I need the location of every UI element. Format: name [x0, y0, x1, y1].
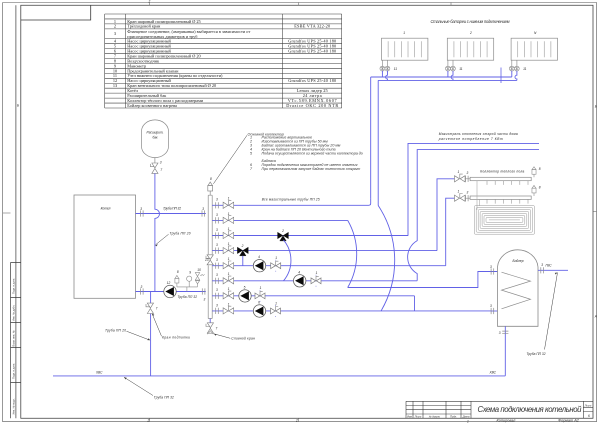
- branch 7 pipe: [212, 295, 414, 297]
- branch 5 flange: [216, 263, 219, 269]
- bypass valve 13 on manifold: [206, 255, 213, 265]
- svg-text:ГВС: ГВС: [546, 263, 553, 267]
- arc jump radiator return into boiler return line: [378, 206, 394, 312]
- branch 4 three-way valve 2: [237, 247, 248, 256]
- cold water supply line: [53, 375, 505, 377]
- floor heating coil loops: [474, 206, 534, 235]
- frame zone ticks bottom: [150, 418, 299, 422]
- radiator N valve pair 11: [509, 66, 519, 71]
- radiator 1 supply drop: [381, 71, 383, 77]
- svg-text:Подача осуществляется из верхн: Подача осуществляется из верхней части к…: [262, 151, 363, 155]
- branch 3 flange: [216, 232, 219, 238]
- svg-text:Б: Б: [17, 104, 19, 108]
- svg-text:Магистраль отопления старой ча: Магистраль отопления старой части дома: [439, 132, 518, 136]
- branch 3 three-way valve 2: [278, 232, 289, 241]
- svg-text:Бойлер косвенного нагрева: Бойлер косвенного нагрева: [127, 103, 177, 108]
- svg-text:1: 1: [228, 227, 230, 231]
- leader to tank pipe: [156, 234, 169, 245]
- leader from make-up valve: [152, 314, 162, 337]
- svg-text:Инв. № подл.: Инв. № подл.: [12, 398, 16, 414]
- boiler body: [74, 195, 136, 298]
- drop pipe from branch 4 three-way to branch 5: [242, 256, 244, 266]
- boiler feed line horizontal: [348, 272, 498, 288]
- svg-text:4: 4: [298, 270, 300, 274]
- svg-text:Стальные батареи с нижним подк: Стальные батареи с нижним подключением: [431, 19, 510, 24]
- radiator 1 body: [382, 38, 428, 60]
- radiator 2 valve pair 11: [445, 66, 455, 71]
- svg-text:5: 5: [244, 285, 246, 289]
- radiator 1 valve stems: [382, 60, 387, 66]
- radiator 2 valve stems: [448, 60, 453, 66]
- svg-text:Бойлер: Бойлер: [513, 259, 524, 263]
- svg-text:Труба ПП 20: Труба ПП 20: [170, 232, 191, 236]
- svg-text:3: 3: [467, 171, 469, 175]
- title block bottom labels: [407, 403, 592, 418]
- svg-text:2: 2: [148, 0, 151, 3]
- top-left stamp box: [21, 5, 91, 20]
- svg-text:Труба ПП 32: Труба ПП 32: [154, 395, 174, 399]
- svg-text:1: 1: [260, 286, 262, 290]
- svg-text:1: 1: [228, 287, 230, 291]
- svg-text:1: 1: [228, 242, 230, 246]
- branch 2 flange: [216, 217, 219, 223]
- valve after pump branch 7: [255, 290, 265, 302]
- leader to make-up pipe: [127, 331, 150, 340]
- svg-text:7: 7: [216, 326, 218, 330]
- svg-text:1: 1: [316, 271, 318, 275]
- svg-text:3: 3: [216, 288, 218, 292]
- left stamp column lines: [11, 5, 21, 418]
- svg-text:Копировал: Копировал: [497, 419, 517, 423]
- collector notes text block: [248, 132, 363, 171]
- svg-text:При первоначальном запуске бай: При первоначальном запуске байпас полнос…: [262, 167, 361, 171]
- svg-text:1: 1: [275, 301, 277, 305]
- svg-text:8: 8: [177, 270, 179, 274]
- svg-text:2: 2: [114, 24, 116, 29]
- boiler cold water stem: [504, 326, 506, 376]
- expansion tank stem: [154, 158, 156, 163]
- svg-text:3: 3: [140, 207, 142, 211]
- svg-text:Все магистральные трубы ПП 25: Все магистральные трубы ПП 25: [262, 197, 320, 201]
- svg-text:Drazice OKC 200 NTR: Drazice OKC 200 NTR: [286, 103, 338, 108]
- bar1 air vent 8: [532, 167, 536, 178]
- radiator supply header pipe: [371, 76, 512, 78]
- svg-text:Дата: Дата: [462, 414, 470, 418]
- title block grid: [406, 401, 593, 418]
- branch 7 valve 1: [223, 291, 234, 299]
- svg-text:Б: Б: [595, 105, 597, 109]
- svg-text:2: 2: [281, 229, 284, 233]
- floor coil connection drop 1: [476, 181, 478, 210]
- svg-text:6: 6: [588, 414, 590, 418]
- radiator 2 return drop with jump over supply: [451, 71, 453, 81]
- svg-text:ESBE VTA 322-20: ESBE VTA 322-20: [294, 24, 330, 29]
- bar2 outlet ticks: [487, 199, 528, 203]
- svg-text:Схема подключения котельной: Схема подключения котельной: [478, 405, 583, 414]
- svg-text:Подп.: Подп.: [450, 414, 457, 418]
- floor coil connection drop 2: [479, 199, 481, 205]
- floor collector bar1 body: [470, 177, 531, 180]
- svg-text:13: 13: [205, 258, 209, 262]
- branch 8 valve 1: [223, 306, 234, 314]
- svg-text:3: 3: [490, 304, 492, 308]
- radiator return main riser: [377, 80, 379, 205]
- branch 5 valve 1: [223, 261, 234, 269]
- supply flange at manifold: [202, 210, 205, 216]
- hot water boiler body: [498, 250, 539, 327]
- expansion tank body: [142, 120, 169, 158]
- pump 5 on branch 7: [239, 290, 251, 302]
- svg-text:ХВС: ХВС: [95, 371, 103, 375]
- leader truba PP32 right: [545, 273, 558, 350]
- floor collector bar2 body: [470, 196, 531, 199]
- svg-text:7: 7: [156, 307, 158, 311]
- svg-text:Коллектор теплого пола: Коллектор теплого пола: [480, 169, 524, 173]
- svg-text:9: 9: [189, 271, 191, 275]
- GVS outlet pipe: [538, 269, 568, 271]
- radiator 1 return drop with jump over supply: [386, 71, 388, 81]
- valve after pump branch 8: [271, 305, 281, 317]
- svg-text:1: 1: [458, 190, 460, 194]
- svg-text:11: 11: [523, 67, 527, 71]
- svg-text:3: 3: [216, 243, 218, 247]
- floor collector bar1 valve 1: [455, 174, 466, 182]
- svg-text:2: 2: [295, 418, 298, 422]
- svg-text:1: 1: [467, 419, 469, 423]
- supply pipe boiler to manifold: [136, 213, 206, 215]
- svg-text:Кран подпитки: Кран подпитки: [162, 336, 190, 340]
- branch 3 valve 1: [223, 231, 234, 239]
- bar2 air vent 8: [532, 185, 536, 196]
- svg-text:Котел: Котел: [101, 207, 111, 211]
- svg-text:1: 1: [228, 302, 230, 306]
- svg-text:Формат А2: Формат А2: [558, 419, 580, 423]
- leader truba PP32 bottom: [124, 377, 153, 395]
- svg-text:1: 1: [275, 256, 277, 260]
- svg-text:А: А: [594, 315, 597, 319]
- svg-text:3: 3: [216, 198, 218, 202]
- branch 1 flange: [216, 202, 219, 208]
- svg-text:3: 3: [216, 228, 218, 232]
- branch 2 pipe: [212, 219, 348, 221]
- svg-text:Изм: Изм: [407, 414, 412, 418]
- make-up pipe from return to cold water: [150, 292, 152, 376]
- svg-text:Подп. и дата: Подп. и дата: [12, 278, 16, 294]
- svg-text:3: 3: [216, 273, 218, 277]
- return flange at boiler: [141, 288, 144, 294]
- svg-text:11: 11: [459, 67, 463, 71]
- make-up valve 7: [146, 303, 154, 313]
- branch 7 flange: [216, 293, 219, 299]
- svg-text:3: 3: [141, 285, 143, 289]
- safety valve 10: [197, 284, 199, 287]
- boiler bottom flange: [502, 331, 508, 334]
- radiator N valve stems: [512, 60, 517, 66]
- branch 6 flange: [216, 278, 219, 284]
- svg-text:Grundfos UPS 25-40 180: Grundfos UPS 25-40 180: [288, 78, 336, 83]
- svg-text:3: 3: [160, 160, 162, 164]
- svg-text:1: 1: [228, 257, 230, 261]
- branch 4 riser to floor collector bar1: [437, 179, 455, 251]
- svg-text:7: 7: [160, 168, 162, 172]
- svg-text:3: 3: [114, 31, 116, 36]
- radiator N body: [511, 38, 557, 60]
- valve after pump branch 5: [271, 260, 281, 272]
- svg-text:11: 11: [394, 67, 398, 71]
- collector drain valve 7: [206, 323, 214, 333]
- svg-text:8: 8: [210, 177, 212, 181]
- svg-text:3: 3: [202, 207, 204, 211]
- bar1 connecting stub: [465, 178, 470, 180]
- frame zone ticks right: [3, 212, 597, 214]
- main collector manifold upper section: [208, 195, 212, 254]
- svg-text:Подп. и дата: Подп. и дата: [12, 363, 16, 379]
- arc jump branch2 down to boiler feed line: [348, 220, 357, 287]
- expansion tank valve 7: [151, 163, 159, 173]
- svg-text:ХВС: ХВС: [489, 371, 497, 375]
- branch 3 pipe: [212, 235, 408, 237]
- radiator N return drop with jump over supply: [515, 71, 517, 81]
- branch 1 valve 1: [223, 201, 234, 209]
- svg-text:Кран вентильного типа полипроп: Кран вентильного типа полипропиленовый Ø…: [127, 83, 216, 88]
- branch 5 pipe: [212, 265, 446, 267]
- svg-text:1: 1: [228, 197, 230, 201]
- pump 4 on branch 5: [253, 260, 265, 272]
- svg-text:8: 8: [539, 167, 541, 171]
- branch 6 valve 1: [223, 276, 234, 284]
- boiler return line to boiler: [491, 310, 498, 312]
- spec table grid: [105, 14, 342, 108]
- svg-text:Труба ПП 32: Труба ПП 32: [527, 352, 546, 356]
- branch 6 pipe: [212, 280, 417, 282]
- return flange at manifold: [202, 288, 205, 294]
- svg-text:Лист: Лист: [414, 414, 423, 418]
- radiator return header pipe: [378, 79, 517, 81]
- branch 4 flange: [216, 248, 219, 254]
- svg-text:Труба ПП 32: Труба ПП 32: [178, 295, 198, 299]
- svg-text:Труба ПП 32: Труба ПП 32: [163, 206, 181, 210]
- collector drain stem: [209, 319, 211, 324]
- svg-text:Взам. инв. №: Взам. инв. №: [12, 330, 16, 346]
- boiler feed flange: [491, 268, 494, 274]
- radiator 2 supply drop: [447, 71, 449, 77]
- manometer 9: [187, 276, 192, 281]
- boiler return flange: [491, 308, 494, 314]
- svg-text:Расширит.: Расширит.: [147, 131, 164, 135]
- branch 7 jog down to boiler return: [414, 296, 416, 311]
- svg-text:Лист: Лист: [584, 403, 593, 407]
- supply flange at boiler: [141, 210, 144, 216]
- frame zone ticks top: [150, 3, 451, 6]
- branch 6 riser to old house return with jump arc: [408, 150, 539, 281]
- drain outlet triangle: [208, 331, 214, 335]
- svg-text:8: 8: [539, 186, 541, 190]
- svg-text:Инв. № дубл.: Инв. № дубл.: [12, 305, 16, 321]
- bar2 flange: [466, 195, 469, 201]
- svg-text:4: 4: [258, 255, 260, 259]
- svg-text:3: 3: [499, 331, 501, 335]
- pump 12: [164, 285, 176, 297]
- svg-text:13: 13: [113, 83, 117, 88]
- expansion tank pipe down with jump over supply: [155, 173, 160, 291]
- branch 8 flange: [216, 308, 219, 314]
- branch 4 valve 1: [223, 246, 234, 254]
- bar2 connecting stub: [465, 197, 470, 199]
- bar1 flange: [466, 176, 469, 182]
- branch 4 pipe: [212, 250, 437, 252]
- svg-text:3: 3: [541, 263, 543, 267]
- branch 2 valve 1: [223, 216, 234, 224]
- collector air vent 8: [208, 182, 213, 195]
- branch 5 riser to floor collector bar2: [446, 198, 455, 266]
- svg-text:3: 3: [467, 190, 469, 194]
- svg-text:3: 3: [216, 213, 218, 217]
- svg-text:№ докум.: № докум.: [429, 414, 441, 418]
- svg-text:2: 2: [469, 31, 472, 35]
- svg-text:Труба ПП 20: Труба ПП 20: [105, 329, 126, 333]
- svg-text:3: 3: [216, 258, 218, 262]
- radiator N supply drop: [511, 71, 513, 77]
- svg-text:3: 3: [216, 303, 218, 307]
- GVS flange: [541, 267, 544, 273]
- pump 6 on branch 8: [253, 305, 265, 317]
- radiator 1 valve pair 11: [380, 66, 390, 71]
- spec table texts: [113, 19, 338, 108]
- left stamp rotated labels: [12, 278, 16, 414]
- pump 4 on branch 6: [294, 275, 306, 287]
- bypass curve from three-way to branch 6: [284, 240, 291, 281]
- boiler heat exchanger coil: [502, 272, 531, 309]
- svg-text:1: 1: [403, 31, 405, 35]
- floor collector bar2 valve 1: [455, 194, 466, 202]
- svg-text:расчетное потребление 7 КВт: расчетное потребление 7 КВт: [438, 137, 503, 141]
- radiator 2 body: [447, 38, 493, 60]
- svg-text:3: 3: [490, 265, 492, 269]
- radiator supply main riser: [370, 77, 372, 198]
- valve after pump branch 6: [311, 275, 321, 287]
- return pipe boiler to manifold: [136, 291, 206, 293]
- svg-text:12: 12: [167, 281, 171, 285]
- svg-text:1: 1: [228, 212, 230, 216]
- svg-text:2: 2: [241, 244, 244, 248]
- svg-text:Grundfos UPS 25-40 180: Grundfos UPS 25-40 180: [288, 49, 336, 54]
- safety group header: [177, 287, 198, 292]
- svg-text:бак: бак: [152, 135, 158, 139]
- svg-text:1: 1: [228, 272, 230, 276]
- svg-text:Сливной кран: Сливной кран: [231, 337, 255, 341]
- svg-text:10: 10: [197, 268, 201, 272]
- branch 1 pipe: [212, 198, 371, 205]
- bar1 outlet ticks: [487, 181, 528, 185]
- svg-text:3: 3: [204, 298, 206, 302]
- collector notes leader line: [213, 135, 247, 184]
- main collector manifold lower section: [208, 265, 212, 318]
- branch 8 pipe: [212, 310, 491, 312]
- branch 3 riser to old house supply: [408, 143, 539, 235]
- leader from drain valve: [214, 334, 230, 339]
- air vent 8: [177, 281, 189, 287]
- svg-text:1: 1: [458, 170, 460, 174]
- svg-text:2: 2: [147, 418, 150, 422]
- short riser segment x501: [500, 68, 502, 84]
